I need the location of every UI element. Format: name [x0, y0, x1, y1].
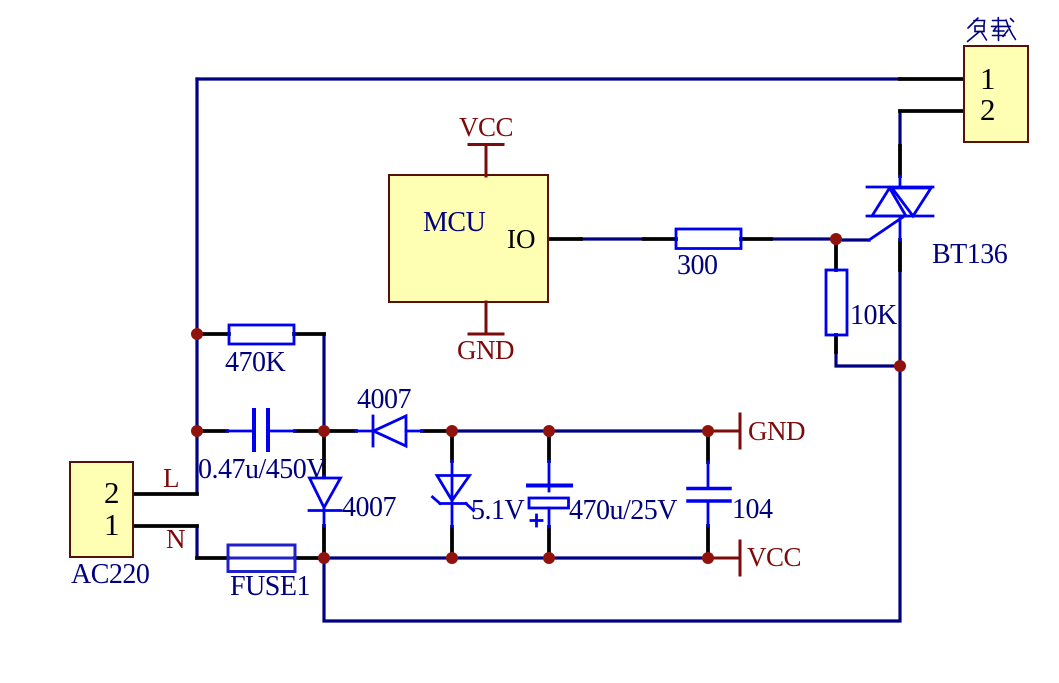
svg-text:2: 2 — [980, 92, 996, 127]
svg-text:VCC: VCC — [747, 542, 801, 572]
svg-text:470K: 470K — [225, 347, 286, 378]
svg-text:GND: GND — [457, 335, 514, 365]
svg-text:VCC: VCC — [459, 112, 513, 142]
svg-text:MCU: MCU — [423, 207, 486, 238]
svg-text:1: 1 — [980, 61, 996, 96]
svg-text:0.47u/450V: 0.47u/450V — [198, 454, 326, 485]
svg-text:10K: 10K — [850, 300, 897, 331]
svg-text:BT136: BT136 — [932, 239, 1008, 270]
svg-text:470u/25V: 470u/25V — [569, 495, 677, 526]
svg-text:4007: 4007 — [357, 384, 412, 415]
svg-text:4007: 4007 — [342, 492, 397, 523]
svg-text:1: 1 — [104, 507, 120, 542]
svg-text:AC220: AC220 — [71, 559, 149, 590]
svg-text:GND: GND — [748, 416, 805, 446]
svg-text:300: 300 — [677, 250, 718, 281]
svg-text:FUSE1: FUSE1 — [230, 571, 310, 602]
svg-text:IO: IO — [507, 224, 536, 254]
svg-text:2: 2 — [104, 475, 120, 510]
svg-text:L: L — [163, 463, 179, 493]
svg-text:N: N — [166, 524, 185, 554]
svg-text:104: 104 — [732, 494, 773, 525]
svg-text:5.1V: 5.1V — [471, 495, 525, 526]
